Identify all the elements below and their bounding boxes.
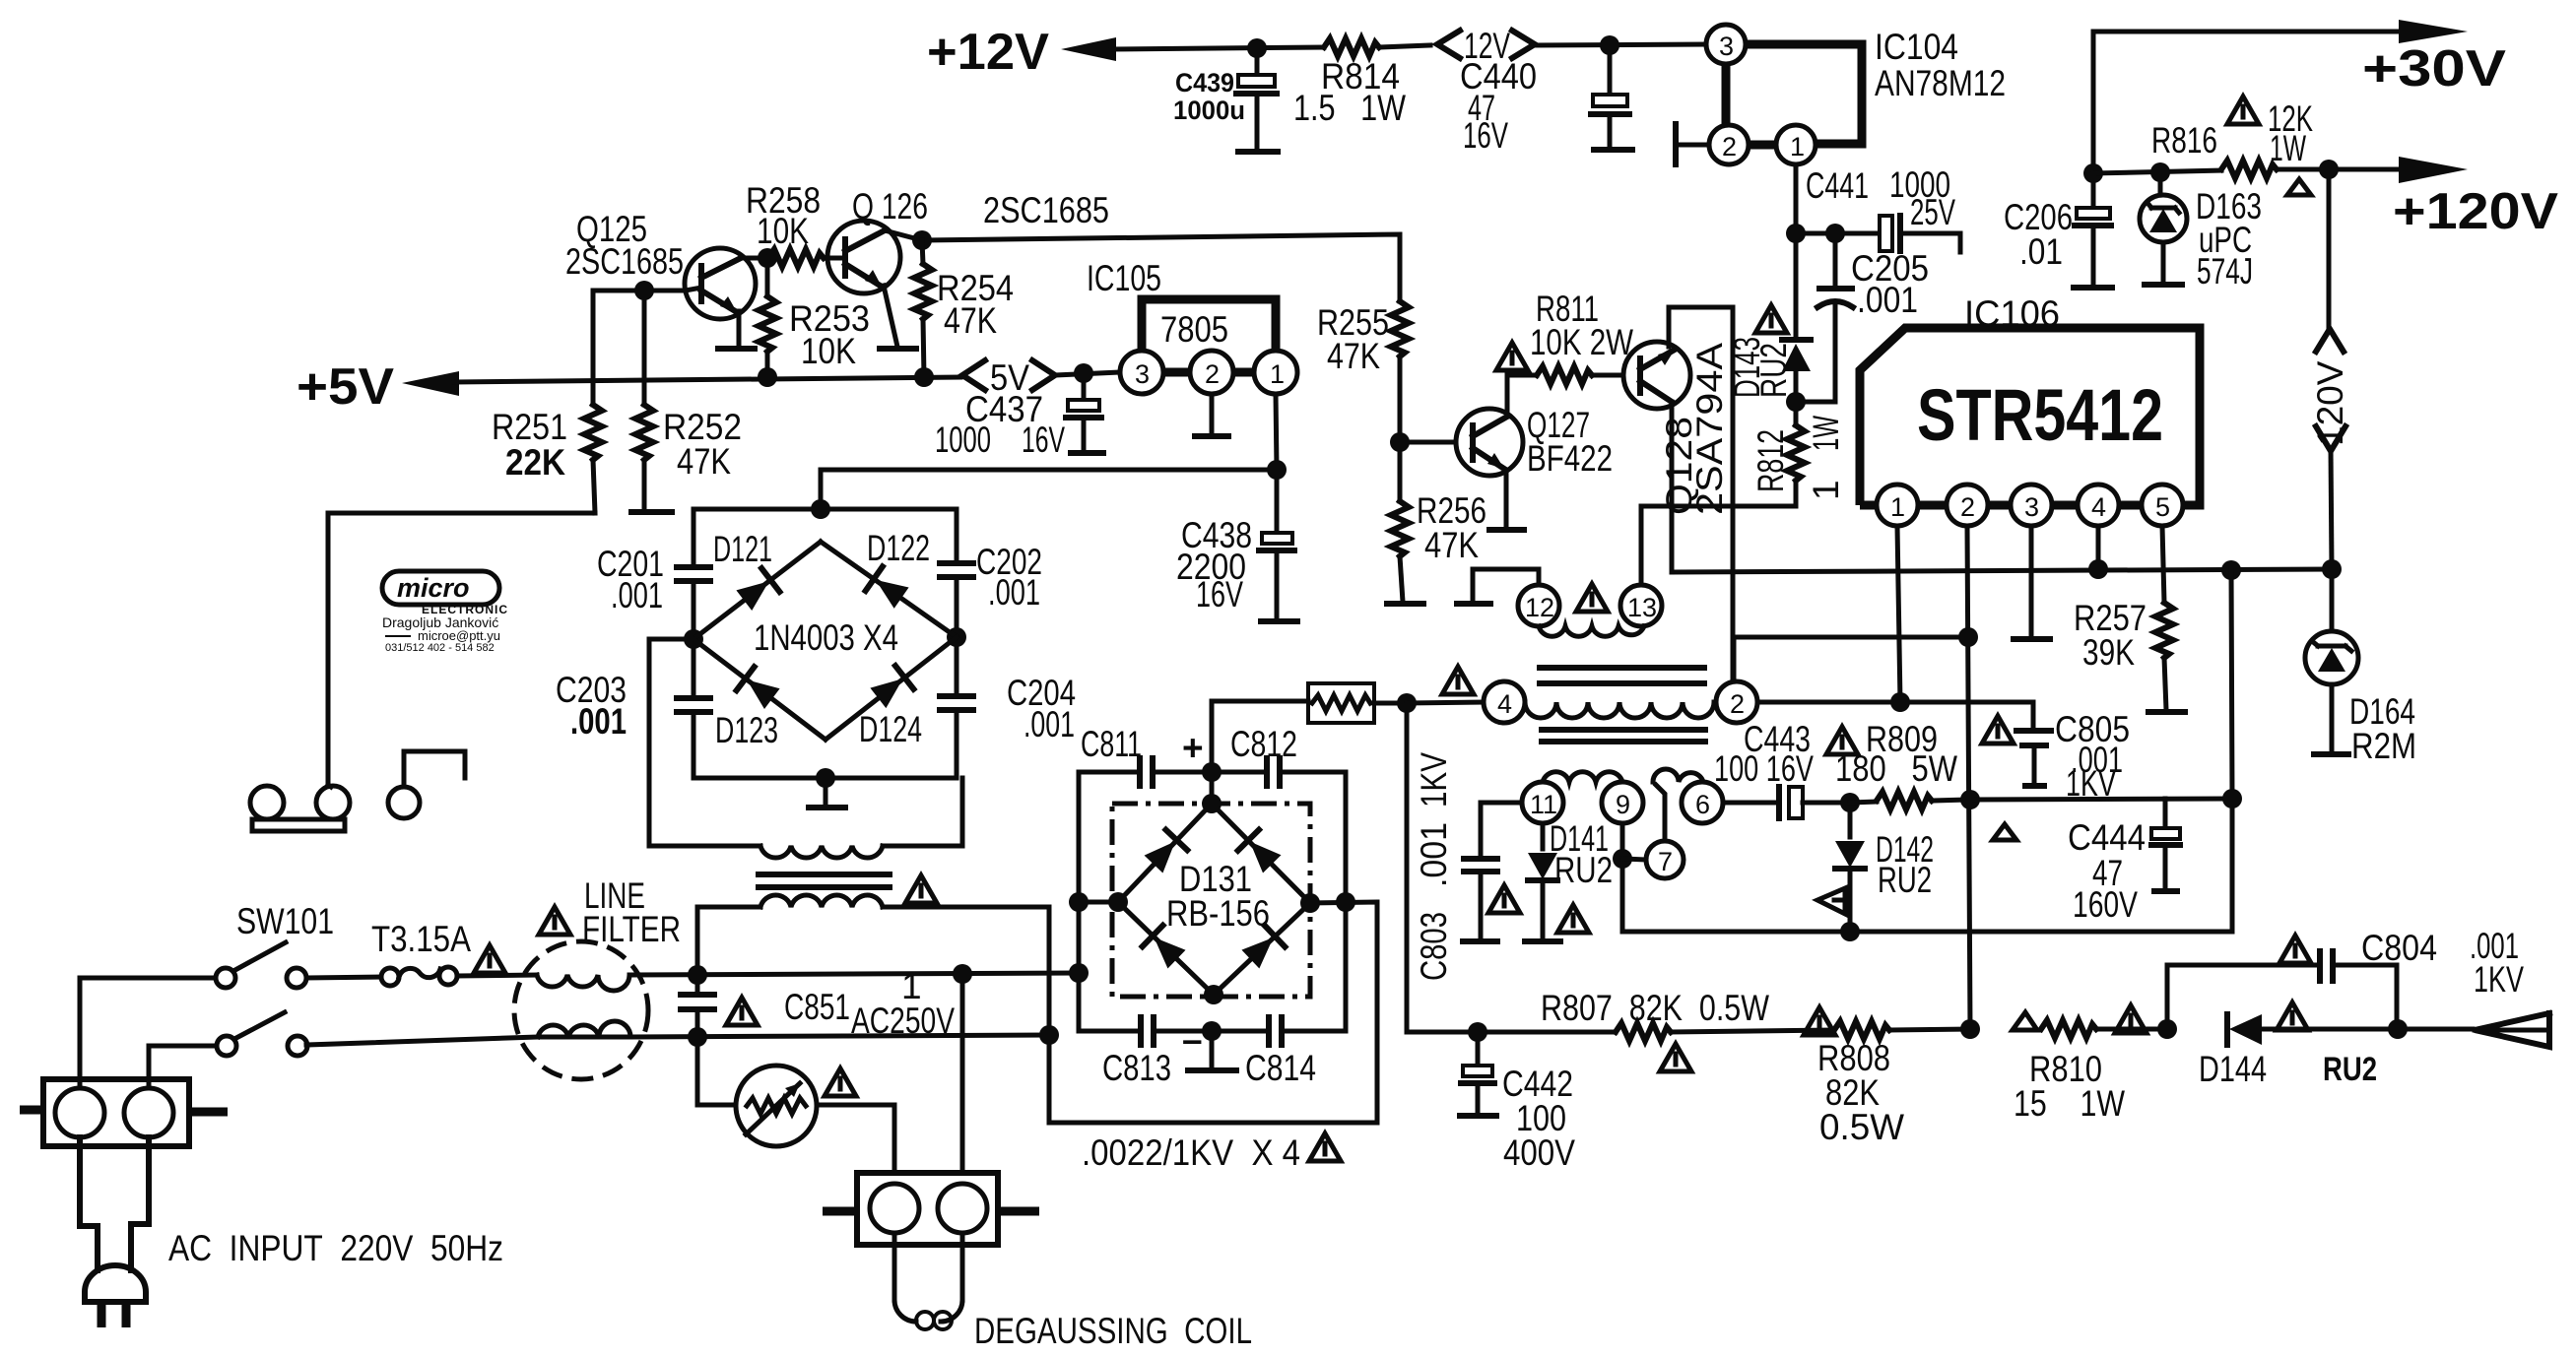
svg-text:47K: 47K (944, 300, 997, 341)
transformer T2 winding 4-2 (1525, 702, 1714, 718)
svg-text:2SA794A: 2SA794A (1689, 343, 1730, 515)
wire R809 to C444 node (1970, 799, 2232, 800)
svg-text:micro: micro (397, 573, 470, 603)
wire +12V rail (1111, 47, 1324, 49)
text 0022/1KV (1082, 1132, 1300, 1173)
warning triangle D144 (2277, 1002, 2308, 1030)
warning triangle C851 (726, 998, 758, 1025)
transformer T2 pin 9 (1602, 782, 1643, 823)
node diamond right (1300, 893, 1320, 913)
svg-text:–: – (1182, 1019, 1203, 1060)
svg-text:160V: 160V (2073, 884, 2138, 925)
ground loop bottom (1188, 1031, 1236, 1070)
node R809 right (1960, 790, 1980, 809)
resistor R811 (1530, 289, 1633, 384)
warning triangle R808 (1804, 1007, 1835, 1035)
svg-text:2: 2 (1730, 689, 1745, 719)
transformer T2 core upper (1540, 668, 1704, 683)
posistor (697, 1037, 894, 1173)
svg-text:RU2: RU2 (2323, 1051, 2377, 1088)
zener D143 RU2 (1727, 233, 1811, 402)
node 12V chevron (1437, 26, 1535, 66)
svg-text:STR5412: STR5412 (1917, 374, 2163, 456)
warning triangle D142 left (1817, 888, 1845, 914)
capacitor C811 (1081, 724, 1212, 786)
wire Q125 base (593, 289, 686, 293)
text 1N4003 X4 (754, 617, 898, 658)
svg-text:1KV: 1KV (2474, 959, 2524, 1000)
node diamond top (1202, 794, 1222, 813)
node pin1 line joins output (1890, 692, 1910, 712)
wire bridge cap loop bottom (694, 776, 957, 781)
capacitor C203 (556, 639, 710, 778)
warning triangle D141 left (1488, 885, 1520, 913)
wire junction to pin4 (1407, 702, 1484, 703)
svg-text:6: 6 (1695, 790, 1710, 819)
resistor R809 (1835, 719, 1970, 809)
svg-text:100 16V: 100 16V (1714, 748, 1814, 789)
flyback arrow (2398, 1013, 2549, 1047)
capacitor C814 (1212, 1017, 1346, 1088)
transistor Q126 2SC1685 (827, 186, 1109, 349)
svg-text:+30V: +30V (2362, 40, 2506, 97)
resistor R253 (759, 258, 870, 377)
svg-text:D123: D123 (715, 710, 778, 750)
svg-text:SW101: SW101 (236, 901, 334, 941)
text RU2 (2323, 1051, 2377, 1088)
svg-text:+: + (1182, 728, 1204, 768)
wire Q127 collector (1507, 375, 1537, 417)
node C851 top (688, 965, 707, 985)
svg-text:1: 1 (1890, 492, 1905, 522)
transformer T2 pin 2 (1716, 681, 1757, 723)
svg-text:2: 2 (1205, 359, 1220, 389)
capacitor C205 (1817, 233, 1929, 402)
capacitor C206 (2004, 173, 2112, 288)
node pin4 wire junction (1397, 693, 1417, 713)
capacitor loop right edge (1344, 772, 1349, 1031)
wire chevron to IC105 (1055, 372, 1120, 375)
warning triangle D143 (1755, 305, 1787, 333)
svg-text:R251: R251 (492, 407, 567, 447)
transformer T2 pin 6 (1682, 782, 1723, 823)
capacitor C805 (2016, 702, 2130, 804)
node D143 bottom (1786, 392, 1806, 412)
resistor R251 (492, 291, 602, 513)
svg-text:D144: D144 (2199, 1049, 2267, 1089)
AC plug body (80, 1137, 149, 1327)
node R807 left (1468, 1022, 1487, 1042)
svg-text:+12V: +12V (927, 24, 1049, 81)
node R816 right junction (2319, 160, 2339, 179)
node R816 left junction (2083, 163, 2103, 183)
svg-text:10K: 10K (801, 331, 856, 371)
svg-text:D122: D122 (867, 528, 930, 568)
node loop top (1202, 762, 1222, 782)
wire branch down to C444 line (2231, 570, 2232, 799)
wire chevron to IC104 pin3 (1532, 44, 1707, 45)
svg-text:FILTER: FILTER (582, 909, 681, 949)
svg-text:.001: .001 (1414, 822, 1454, 887)
svg-text:2: 2 (1960, 492, 1975, 522)
node bridge left corner (684, 629, 703, 649)
svg-text:3: 3 (2024, 492, 2039, 522)
ground STR pin3 (2014, 526, 2050, 639)
ground bridge bottom (809, 778, 845, 808)
svg-text:1: 1 (1806, 480, 1846, 500)
wire Q128 emitter loop (1669, 307, 1733, 681)
warning triangle R810 left (2013, 1012, 2037, 1030)
svg-text:C439: C439 (1175, 68, 1234, 97)
svg-text:7805: 7805 (1160, 309, 1228, 350)
capacitor C444 (2068, 799, 2180, 925)
wire plug left to switch (80, 978, 216, 1088)
capacitor C804 loop (2167, 926, 2524, 1029)
warning triangle R811 (1496, 343, 1528, 370)
svg-text:180 5W: 180 5W (1835, 748, 1957, 789)
capacitor C440 (1460, 45, 1632, 156)
wire feedback line (1622, 930, 2232, 935)
transformer T2 pin 12 (1457, 569, 1559, 626)
op-amp IC104 AN78M12 regulator (1706, 25, 2006, 164)
capacitor C441 (1806, 164, 1960, 252)
capacitor C201 (597, 544, 710, 639)
svg-text:BF422: BF422 (1527, 438, 1613, 479)
warning triangle pin4 wire (1442, 667, 1474, 694)
wire IC105 pin1 down (1276, 394, 1277, 470)
node R808 right (1960, 1019, 1980, 1039)
resistor R810 (2014, 1020, 2167, 1124)
warning triangle R807 below (1660, 1044, 1691, 1071)
svg-text:12: 12 (1525, 593, 1554, 622)
svg-text:C811: C811 (1081, 724, 1142, 764)
+12V arrow (1061, 37, 1116, 61)
svg-text:1W: 1W (2270, 128, 2306, 168)
diode D141 RU2 (1525, 818, 1613, 941)
node pin7 wire (1613, 849, 1632, 869)
svg-text:15 1W: 15 1W (2014, 1083, 2125, 1124)
wire STR pin1 down (1897, 526, 1900, 702)
capacitor C443 (1714, 719, 1850, 818)
svg-text:13: 13 (1627, 593, 1657, 622)
warning triangle fuse (474, 945, 505, 973)
node bridge plus junction (811, 499, 830, 519)
wire AC loop to bridge right (1049, 902, 1377, 1123)
warning triangle R810 right (2115, 1005, 2147, 1033)
wire switch to fuse (306, 977, 382, 978)
interlock connector (250, 751, 465, 831)
transformer T2 winding 6-7 (1653, 769, 1703, 841)
transformer T2 winding 12-13 (1539, 626, 1644, 636)
svg-text:C441: C441 (1806, 165, 1869, 206)
svg-text:47K: 47K (1424, 525, 1479, 565)
node D144 left (2157, 1019, 2177, 1039)
svg-text:AC INPUT 220V 50Hz: AC INPUT 220V 50Hz (168, 1228, 503, 1268)
capacitor C803 (1414, 752, 1522, 981)
svg-text:3: 3 (1135, 359, 1150, 389)
wire Q125 collector to node (741, 256, 767, 261)
svg-text:4: 4 (1497, 689, 1512, 719)
wire R812 to pin13 (1641, 506, 1796, 585)
diode D121 (694, 529, 821, 639)
svg-text:47K: 47K (677, 441, 731, 482)
node IC105 pin1 junction (1267, 460, 1287, 480)
svg-text:3: 3 (1719, 32, 1734, 61)
node diamond bottom (1204, 985, 1223, 1004)
svg-text:RU2: RU2 (1878, 860, 1932, 900)
node Q125 collector (758, 248, 777, 268)
svg-text:.001: .001 (988, 572, 1040, 613)
node Q127 base (1390, 432, 1410, 452)
svg-text:+120V: +120V (2393, 183, 2558, 240)
wire AC1 to bridge D131 (697, 907, 760, 975)
wire to D163 (2093, 170, 2221, 173)
bridge D131 diamond (1118, 804, 1310, 995)
wire pin1 to bridge (821, 470, 1277, 509)
node diamond left (1108, 892, 1128, 912)
svg-text:1: 1 (1790, 132, 1805, 162)
wire pin2 output (1757, 700, 2033, 705)
wire junction down to R807 line (1407, 703, 1478, 1032)
svg-text:1N4003 X4: 1N4003 X4 (754, 617, 898, 658)
svg-text:C803: C803 (1414, 912, 1454, 981)
node collector-line right end (2322, 559, 2342, 579)
capacitor C204 (940, 637, 1076, 778)
node R254 top (912, 230, 932, 250)
capacitor loop D131 left edge (1079, 772, 1140, 973)
wire pin2 branch to transformer pin2 (1734, 637, 1968, 681)
svg-text:C851: C851 (784, 987, 850, 1027)
svg-text:47K: 47K (1327, 336, 1380, 376)
svg-text:1000: 1000 (935, 420, 991, 460)
diode D131 bottom-left (1143, 926, 1187, 970)
diode D144 (2199, 1014, 2398, 1089)
resistor R252 (631, 291, 742, 512)
wire fuse to filter (457, 975, 537, 976)
svg-text:16V: 16V (1022, 420, 1065, 460)
text AC INPUT 220V 50Hz (168, 1228, 503, 1268)
node bridge bottom (816, 768, 835, 788)
transformer T1 lower coil (760, 895, 1049, 907)
node C437 junction (1074, 363, 1093, 383)
op-amp IC105 7805 regulator (1087, 258, 1297, 394)
transformer T2 pin 13 (1620, 585, 1662, 626)
node R253 bottom (758, 367, 777, 387)
svg-text:574J: 574J (2197, 251, 2253, 291)
+5V rail label (297, 358, 394, 416)
svg-text:5: 5 (2155, 492, 2170, 522)
svg-text:R812: R812 (1750, 429, 1791, 492)
svg-text:.001: .001 (1857, 280, 1918, 320)
wire IC104 pin2 to bar (1676, 124, 1709, 164)
warning triangle C443 (1826, 727, 1858, 754)
transformer T2 pin 7 (1646, 841, 1684, 878)
svg-text:1KV: 1KV (1414, 752, 1454, 808)
svg-text:RU2: RU2 (1753, 343, 1794, 398)
warning triangle C805 (1982, 716, 2014, 743)
svg-text:1: 1 (1270, 359, 1285, 389)
svg-text:10K 2W: 10K 2W (1530, 322, 1633, 362)
resistor R255 (1317, 301, 1409, 442)
fuse T3.15A (371, 919, 471, 986)
svg-text:9: 9 (1616, 790, 1630, 819)
svg-text:7: 7 (1658, 847, 1673, 876)
svg-text:10K: 10K (757, 211, 809, 251)
logo micro electronic (382, 571, 508, 654)
capacitor C437 (935, 373, 1103, 460)
resistor R258 (746, 180, 828, 267)
node pin1 junction (1786, 224, 1806, 243)
transistor Q128 2SA794A (1623, 342, 1730, 515)
resistor R256 (1387, 442, 1486, 604)
svg-text:16V: 16V (1463, 115, 1508, 156)
svg-text:1000u: 1000u (1173, 96, 1245, 125)
node loop left AC1 lower (1069, 963, 1089, 983)
node loop right (1336, 892, 1355, 912)
svg-text:11: 11 (1530, 790, 1557, 819)
wire collector line to 120V node (1672, 569, 2335, 572)
wire 120V vertical (2310, 169, 2350, 569)
wire bridge cap loop top (694, 509, 957, 567)
wire degauss vertical (960, 974, 965, 1173)
resistor R807 (1478, 988, 1832, 1041)
svg-text:DEGAUSSING COIL: DEGAUSSING COIL (974, 1311, 1252, 1351)
warning triangle posistor (825, 1068, 856, 1096)
svg-text:25V: 25V (1910, 192, 1955, 232)
resistor R812 (1750, 402, 1846, 506)
node D142 bottom (1840, 922, 1860, 941)
resistor R254 (914, 240, 1014, 377)
wire AC line2 (306, 1035, 1049, 1045)
wire +5V rail (454, 377, 960, 382)
svg-text:1W: 1W (1806, 416, 1846, 451)
node pin2 branch (1958, 627, 1978, 647)
resistor R816 (2151, 98, 2401, 178)
wire STR pin2 down (1967, 526, 1970, 1029)
wire Q126 collector rail (885, 230, 1400, 301)
svg-text:RU2: RU2 (1554, 850, 1613, 890)
ground IC105 pin2 (1195, 394, 1228, 436)
wire loop left to diamond (1079, 900, 1118, 905)
svg-text:2SC1685: 2SC1685 (565, 241, 684, 282)
svg-text:16V: 16V (1196, 574, 1243, 614)
switch SW101 upper (216, 901, 334, 988)
capacitor C442 (1460, 1032, 1575, 1173)
svg-text:D121: D121 (713, 529, 772, 569)
resistor R257 (2074, 526, 2185, 712)
wire R251 to interlock (328, 513, 595, 785)
warning triangle D141 right (1557, 905, 1589, 933)
warning triangle small below R816 (2287, 179, 2311, 195)
svg-text:1.5 1W: 1.5 1W (1293, 88, 1406, 128)
node bridge right corner (947, 627, 966, 647)
svg-text:microe@ptt.yu: microe@ptt.yu (418, 628, 500, 643)
warning triangle pins 12-13 (1576, 584, 1608, 612)
node D163 junction (2150, 162, 2170, 182)
line filter (514, 875, 681, 1079)
diode D131 bottom-right (1240, 926, 1285, 970)
svg-text:C813: C813 (1102, 1048, 1171, 1088)
resistor R814 (1293, 38, 1430, 128)
wire AC line1 (629, 973, 1079, 975)
node D144 right (2388, 1019, 2408, 1039)
bridge D131 dashed box (1112, 804, 1310, 997)
svg-text:AC250V: AC250V (851, 1001, 955, 1041)
wire IC104 pin1 down (1794, 164, 1799, 233)
transistor Q127 BF422 (1456, 405, 1613, 530)
text D131 RB-156 (1166, 859, 1270, 934)
+5V arrow (402, 371, 459, 396)
node degauss branch (953, 964, 972, 984)
diode D122 (821, 528, 957, 637)
svg-text:39K: 39K (2082, 632, 2135, 673)
svg-text:C814: C814 (1245, 1048, 1316, 1088)
node C851 bottom (688, 1027, 707, 1047)
svg-text:C812: C812 (1230, 724, 1297, 764)
warning triangle T1 (905, 875, 937, 903)
wire base to Q127 (1400, 440, 1457, 445)
wire STR pin4 down (2096, 526, 2101, 569)
svg-text:.0022/1KV X 4: .0022/1KV X 4 (1082, 1132, 1300, 1173)
wire plug right to switch (149, 1046, 217, 1088)
node C439 junction (1247, 38, 1267, 58)
transistor Q125 2SC1685 (565, 209, 756, 349)
node 5V chevron (962, 357, 1055, 398)
node loop bottom (1202, 1021, 1222, 1041)
capacitor C439 (1173, 48, 1278, 152)
degaussing coil (894, 1233, 1252, 1351)
svg-text:0.5W: 0.5W (1819, 1107, 1904, 1147)
svg-text:22K: 22K (505, 442, 565, 483)
svg-text:2SC1685: 2SC1685 (983, 190, 1109, 230)
node Q125 base (634, 281, 654, 300)
svg-text:4: 4 (2091, 492, 2106, 522)
svg-text:+5V: +5V (297, 358, 394, 416)
wire bridge plus up (1212, 701, 1308, 804)
svg-text:031/512 402 - 514 582: 031/512 402 - 514 582 (385, 642, 495, 654)
diode D131 top-left (1143, 830, 1187, 874)
svg-text:AN78M12: AN78M12 (1875, 63, 2006, 103)
warning triangle R816 (2227, 97, 2259, 124)
node C441 branch (1825, 224, 1845, 243)
AC plug connector box (20, 1079, 228, 1146)
wire pin7 to pin9 (1622, 859, 1646, 860)
node AC line2 end (1039, 1025, 1059, 1045)
diode D142 RU2 (1835, 803, 1934, 932)
+12V rail label (927, 24, 1049, 81)
node C440 junction (1600, 35, 1619, 55)
transformer T1 primary coil (760, 778, 962, 858)
svg-text:IC106: IC106 (1964, 293, 2060, 334)
svg-text:T3.15A: T3.15A (371, 919, 471, 959)
wire C444 node down (2230, 799, 2235, 932)
svg-text:2: 2 (1722, 132, 1737, 162)
wire pin9 down (1620, 823, 1625, 932)
svg-text:.01: .01 (2019, 231, 2063, 272)
capacitor C202 (940, 542, 1042, 637)
svg-text:C804: C804 (2361, 928, 2437, 968)
svg-text:400V: 400V (1503, 1132, 1575, 1173)
node D142 top (1840, 793, 1860, 812)
capacitor C438 (1176, 470, 1297, 621)
switch SW101 lower (217, 1012, 307, 1056)
warning triangle 0022 (1309, 1133, 1341, 1161)
node pin4 junction (2088, 559, 2108, 579)
zener D164 R2M (2305, 569, 2416, 766)
warning triangle R809 right (1993, 824, 2016, 840)
svg-text:RB-156: RB-156 (1166, 893, 1270, 934)
warning triangle line filter (539, 907, 570, 935)
